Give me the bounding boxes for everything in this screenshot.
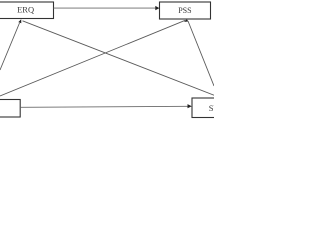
svg-text:ERQ: ERQ bbox=[17, 5, 34, 15]
svg-text:PSS: PSS bbox=[178, 6, 191, 15]
box bottom-left (label cut off) bbox=[0, 100, 20, 118]
wire arrow from left edge into PSS bottom bbox=[0, 19, 188, 96]
wire arrow from left edge into ERQ bottom bbox=[0, 19, 21, 70]
wire arrow ERQ to PSS (top horizontal) bbox=[54, 6, 160, 10]
wire long diagonal ERQ bottom to right edge bbox=[23, 21, 215, 95]
box PSS bbox=[160, 2, 211, 19]
box bottom-right S (cut at right edge) bbox=[192, 98, 224, 118]
wire arrow bottom-left box to bottom-right box bbox=[20, 104, 192, 108]
svg-text:SW: SW bbox=[209, 103, 214, 113]
box ERQ bbox=[0, 2, 54, 19]
wire steep diagonal from PSS bottom to right edge bbox=[188, 21, 214, 86]
